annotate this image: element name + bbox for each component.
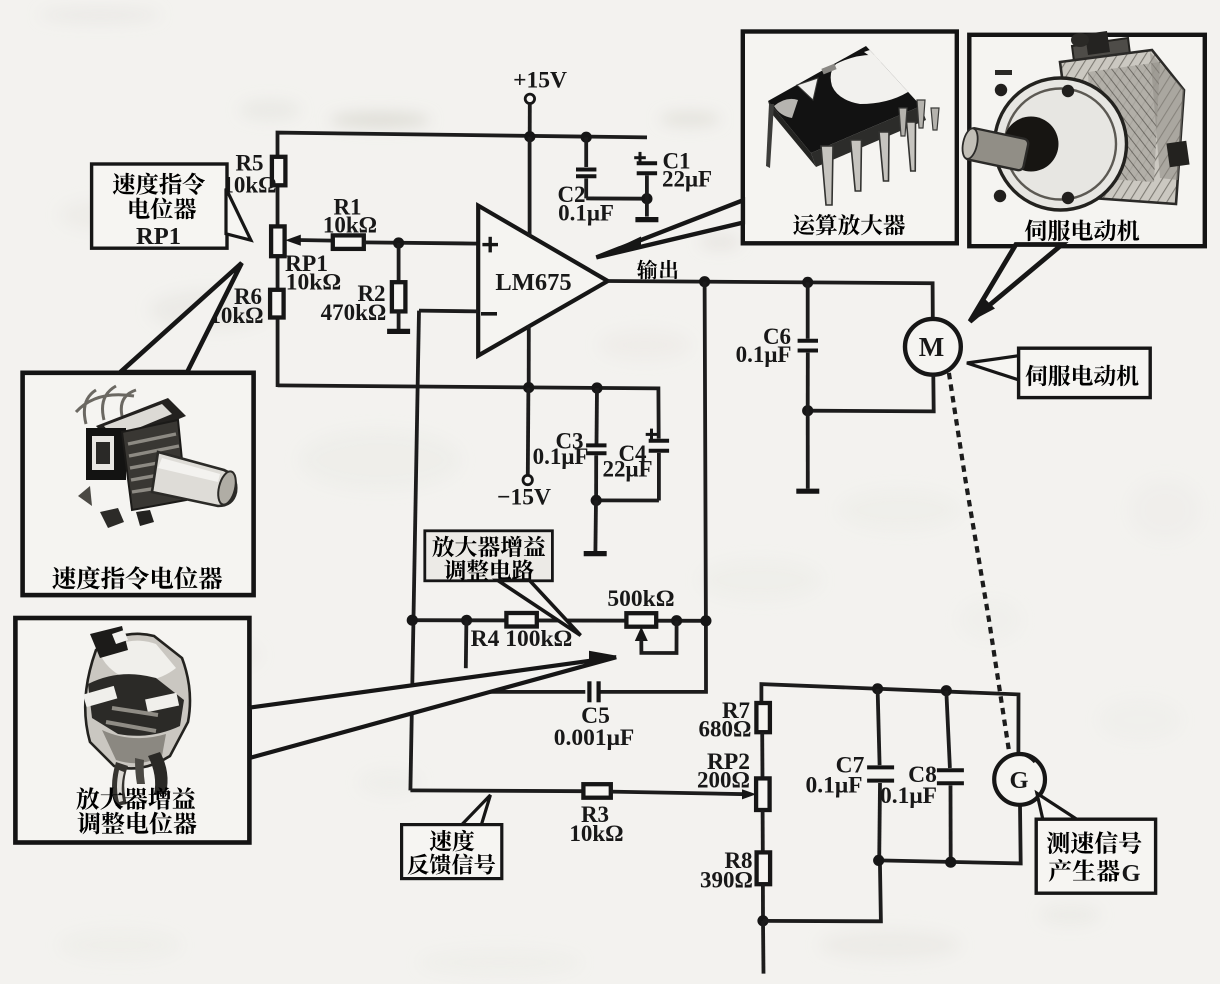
svg-text:0.1μF: 0.1μF bbox=[736, 342, 792, 367]
label C3 bbox=[533, 429, 589, 470]
caption: servo motor photo bbox=[1025, 219, 1139, 241]
wire: top rail from R5 branch to C1 bbox=[278, 133, 648, 387]
callout tail: servo motor label to M bbox=[967, 356, 1020, 381]
callout triangle: trimmer photo to 500k wiper bbox=[250, 651, 617, 758]
svg-text:0.1μF: 0.1μF bbox=[558, 201, 614, 226]
svg-text:+15V: +15V bbox=[513, 68, 567, 94]
label R5 bbox=[222, 151, 276, 198]
node: R8 bottom junction bbox=[757, 915, 768, 926]
caption: gain-adjust trimmer photo (line 1) bbox=[76, 787, 195, 810]
svg-text:0.1μF: 0.1μF bbox=[533, 444, 589, 469]
label: output (shu chu) bbox=[637, 260, 678, 280]
label box: amplifier gain adjust circuit bbox=[425, 531, 553, 581]
wire: R3 to RP2 wiper arrow bbox=[611, 789, 756, 799]
wire: R7 to RP2 bbox=[760, 732, 764, 778]
wire: output feedback drop to gain network bbox=[600, 282, 706, 692]
svg-text:0.001μF: 0.001μF bbox=[554, 725, 635, 751]
wire: +15V into op-amp top edge bbox=[528, 137, 532, 237]
node: C3 junction on bottom rail bbox=[591, 382, 602, 393]
wire: R8 riser to C7/C8 bottom rail bbox=[763, 861, 881, 921]
caption: gain-adjust trimmer photo (line 2) bbox=[78, 812, 197, 835]
wire: motor bottom loop to C6 bbox=[808, 375, 934, 412]
potentiometer RP1 bbox=[271, 226, 285, 256]
wire: junction down to R2 bbox=[397, 243, 401, 282]
op-amp U1 LM675 triangle bbox=[478, 206, 608, 356]
svg-text:500kΩ: 500kΩ bbox=[607, 586, 674, 612]
svg-text:RP1: RP1 bbox=[136, 223, 181, 250]
photo frame: servo motor bbox=[960, 31, 1205, 246]
svg-text:10kΩ: 10kΩ bbox=[222, 173, 276, 198]
resistor R3 bbox=[583, 784, 610, 798]
label R6 bbox=[209, 284, 263, 328]
node: R2 junction bbox=[393, 237, 404, 248]
svg-text:10kΩ: 10kΩ bbox=[286, 270, 341, 296]
wire: bottom rail bbox=[278, 385, 659, 438]
wire: R8 bottom bbox=[761, 884, 765, 921]
svg-text:390Ω: 390Ω bbox=[700, 868, 753, 893]
label R7 bbox=[699, 698, 752, 742]
resistor R5 bbox=[272, 157, 286, 186]
callout tail: op-amp photo to LM675 bbox=[596, 200, 743, 258]
capacitor C8 bbox=[937, 691, 964, 863]
photo frame: op-amp IC (DIP-8) bbox=[743, 32, 957, 244]
wire: RP2 to R8 bbox=[761, 810, 765, 852]
label box: speed feedback signal bbox=[402, 825, 502, 879]
svg-text:22μF: 22μF bbox=[662, 167, 712, 192]
svg-text:G: G bbox=[1121, 860, 1140, 887]
ground: C6/motor return bbox=[796, 489, 819, 494]
ground: R2 bbox=[387, 329, 410, 334]
callout tail: tach label to G bbox=[1037, 793, 1078, 820]
resistor R7 bbox=[756, 703, 770, 732]
label RP1 bbox=[285, 251, 341, 296]
svg-text:R4 100kΩ: R4 100kΩ bbox=[471, 626, 573, 652]
node: V- junction on bottom rail bbox=[523, 382, 534, 393]
wire: op-amp output bbox=[608, 281, 933, 319]
svg-text:680Ω: 680Ω bbox=[699, 717, 752, 742]
node: stub junction bbox=[461, 615, 472, 669]
svg-text:200Ω: 200Ω bbox=[697, 768, 750, 793]
node: gain rail right junction bbox=[700, 615, 711, 626]
label C2 bbox=[557, 182, 613, 226]
label box: speed command potentiometer RP1 bbox=[92, 164, 227, 250]
node: C1/C2 junction bbox=[641, 193, 652, 204]
capacitor C2 bbox=[576, 137, 596, 198]
resistor R1 bbox=[333, 235, 364, 249]
svg-text:10kΩ: 10kΩ bbox=[569, 821, 623, 846]
callout tail: speed feedback label to R3 wire bbox=[461, 795, 491, 826]
resistor R2 bbox=[392, 282, 406, 311]
wire: R2 to ground bbox=[397, 311, 401, 329]
svg-text:−15V: −15V bbox=[497, 485, 551, 511]
node: +15V junction on top rail bbox=[524, 131, 535, 142]
node: feedback junction on output bbox=[699, 276, 710, 287]
potentiometer RP2 bbox=[756, 778, 770, 810]
resistor R8 bbox=[757, 852, 771, 884]
label C5 bbox=[554, 703, 635, 751]
wire: C7/C8 bottom rail to G bbox=[879, 805, 1021, 863]
svg-text:0.1μF: 0.1μF bbox=[805, 773, 862, 799]
capacitor C6 bbox=[798, 282, 818, 410]
motor M circle bbox=[905, 319, 961, 375]
node: C6 bottom junction bbox=[802, 405, 813, 416]
label RP2 bbox=[697, 749, 750, 793]
wire: C3/C4 bottoms joined bbox=[596, 498, 659, 502]
label R8 bbox=[700, 848, 753, 893]
label R1 bbox=[323, 195, 377, 238]
wire: R8 dangling stub bbox=[761, 921, 765, 974]
node: C3/C4 junction bbox=[591, 495, 602, 506]
svg-text:22μF: 22μF bbox=[602, 457, 652, 482]
wire: R3 branch from feedback vertical bbox=[410, 789, 583, 794]
svg-text:LM675: LM675 bbox=[495, 269, 571, 296]
callout tail: gain label to 500k pot bbox=[498, 580, 581, 635]
svg-text:M: M bbox=[919, 332, 944, 362]
wire: tach divider top rail bbox=[761, 684, 1018, 754]
capacitor C4 (electrolytic) bbox=[646, 429, 669, 501]
label R2 bbox=[321, 281, 387, 325]
capacitor C7 bbox=[867, 689, 894, 861]
node: C8 bottom junction bbox=[945, 857, 956, 868]
node: C2 junction on top rail bbox=[581, 132, 592, 143]
wire: junction to ground bbox=[594, 500, 598, 551]
label box: tach signal generator G bbox=[1036, 819, 1155, 893]
wire: - input horizontal bbox=[419, 309, 478, 314]
ground: C3/C4 bbox=[584, 551, 607, 556]
photo frame: speed-command potentiometer bbox=[23, 373, 254, 595]
callout tail: motor photo to M bbox=[970, 245, 1063, 323]
node: gain rail left junction bbox=[407, 615, 418, 626]
tach generator G circle bbox=[994, 754, 1045, 805]
label C6 bbox=[736, 324, 792, 367]
RP1 wiper arrow bbox=[285, 235, 333, 246]
wire: - input feedback vertical (down to R3 corner) bbox=[410, 311, 419, 791]
svg-text:0.1μF: 0.1μF bbox=[880, 783, 937, 809]
node: pot wiper junction bbox=[671, 615, 682, 626]
svg-text:G: G bbox=[1009, 767, 1028, 794]
label R3 bbox=[569, 802, 623, 846]
svg-text:470kΩ: 470kΩ bbox=[321, 300, 387, 325]
capacitor C5 bbox=[412, 681, 598, 702]
capacitor C1 (electrolytic) bbox=[634, 152, 657, 217]
resistor R6 bbox=[270, 290, 284, 318]
callout triangle: potentiometer photo to RP1 bbox=[121, 263, 242, 372]
label 500k bbox=[607, 586, 674, 612]
label C4 bbox=[602, 441, 652, 482]
label R4 100k bbox=[471, 626, 573, 652]
wire: C6 junction to ground bbox=[806, 411, 810, 489]
node: C7 top junction bbox=[872, 683, 883, 694]
ground: C1 bbox=[635, 217, 658, 222]
dashed mechanical link M to G bbox=[949, 373, 1009, 753]
+15V supply terminal bbox=[513, 68, 567, 137]
wire: op-amp bottom edge to bottom rail bbox=[527, 325, 531, 388]
caption: op-amp photo bbox=[793, 214, 905, 235]
node: C6 junction on output bbox=[802, 277, 813, 288]
potentiometer 500k bbox=[626, 613, 656, 627]
wire: C2 bottom to C1 bbox=[586, 196, 647, 200]
node: C7 bottom junction bbox=[873, 855, 884, 866]
label box: servo motor bbox=[1019, 348, 1151, 397]
label C7 bbox=[805, 753, 864, 799]
photo frame: gain-adjust trimmer potentiometer bbox=[15, 618, 249, 843]
wire: R1 to op-amp + input bbox=[364, 242, 478, 243]
-15V supply terminal bbox=[497, 388, 551, 511]
wire: gain rail (R4 / 500k pot) bbox=[412, 618, 706, 622]
svg-text:10kΩ: 10kΩ bbox=[323, 213, 377, 238]
label C1 bbox=[662, 149, 712, 192]
capacitor C3 bbox=[586, 388, 606, 500]
500k pot wiper arrow bbox=[635, 621, 677, 653]
label C8 bbox=[880, 762, 937, 809]
resistor R4 bbox=[506, 613, 536, 627]
node: C8 top junction bbox=[941, 685, 952, 696]
callout tail: RP1 box to RP1 bbox=[226, 189, 251, 241]
caption: speed-command potentiometer photo bbox=[52, 566, 222, 589]
